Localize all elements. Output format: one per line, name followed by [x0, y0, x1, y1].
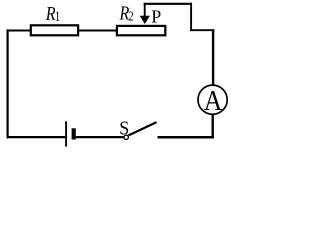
- wire: ammeter to bottom corner: [211, 114, 213, 138]
- wire: wiper top horizontal: [144, 3, 192, 5]
- svg-text:P: P: [151, 6, 161, 26]
- wiper arrow head: [140, 16, 150, 24]
- svg-text:A: A: [204, 85, 223, 117]
- wire: left vertical: [6, 29, 8, 138]
- wire: step horizontal: [190, 29, 214, 31]
- wire: battery to switch: [76, 136, 124, 138]
- battery: short thick electrode: [72, 128, 76, 139]
- resistor R1: [31, 25, 78, 35]
- rheostat R2: [117, 26, 165, 35]
- battery: long thin electrode: [65, 121, 67, 146]
- wire: bottom-left horizontal: [7, 136, 66, 138]
- svg-text:1: 1: [55, 9, 61, 25]
- switch pivot: [124, 135, 128, 139]
- wire: top-left horizontal to R1: [7, 29, 32, 31]
- ammeter A: [198, 85, 227, 114]
- svg-text:2: 2: [128, 10, 133, 25]
- wire: R1 to R2: [78, 29, 118, 31]
- wire: step vertical: [190, 3, 192, 31]
- switch lever: [129, 122, 157, 135]
- wire: bottom-right horizontal: [158, 136, 214, 139]
- wire: vertical to ammeter: [212, 29, 214, 86]
- wiper arrow shaft: [144, 3, 146, 17]
